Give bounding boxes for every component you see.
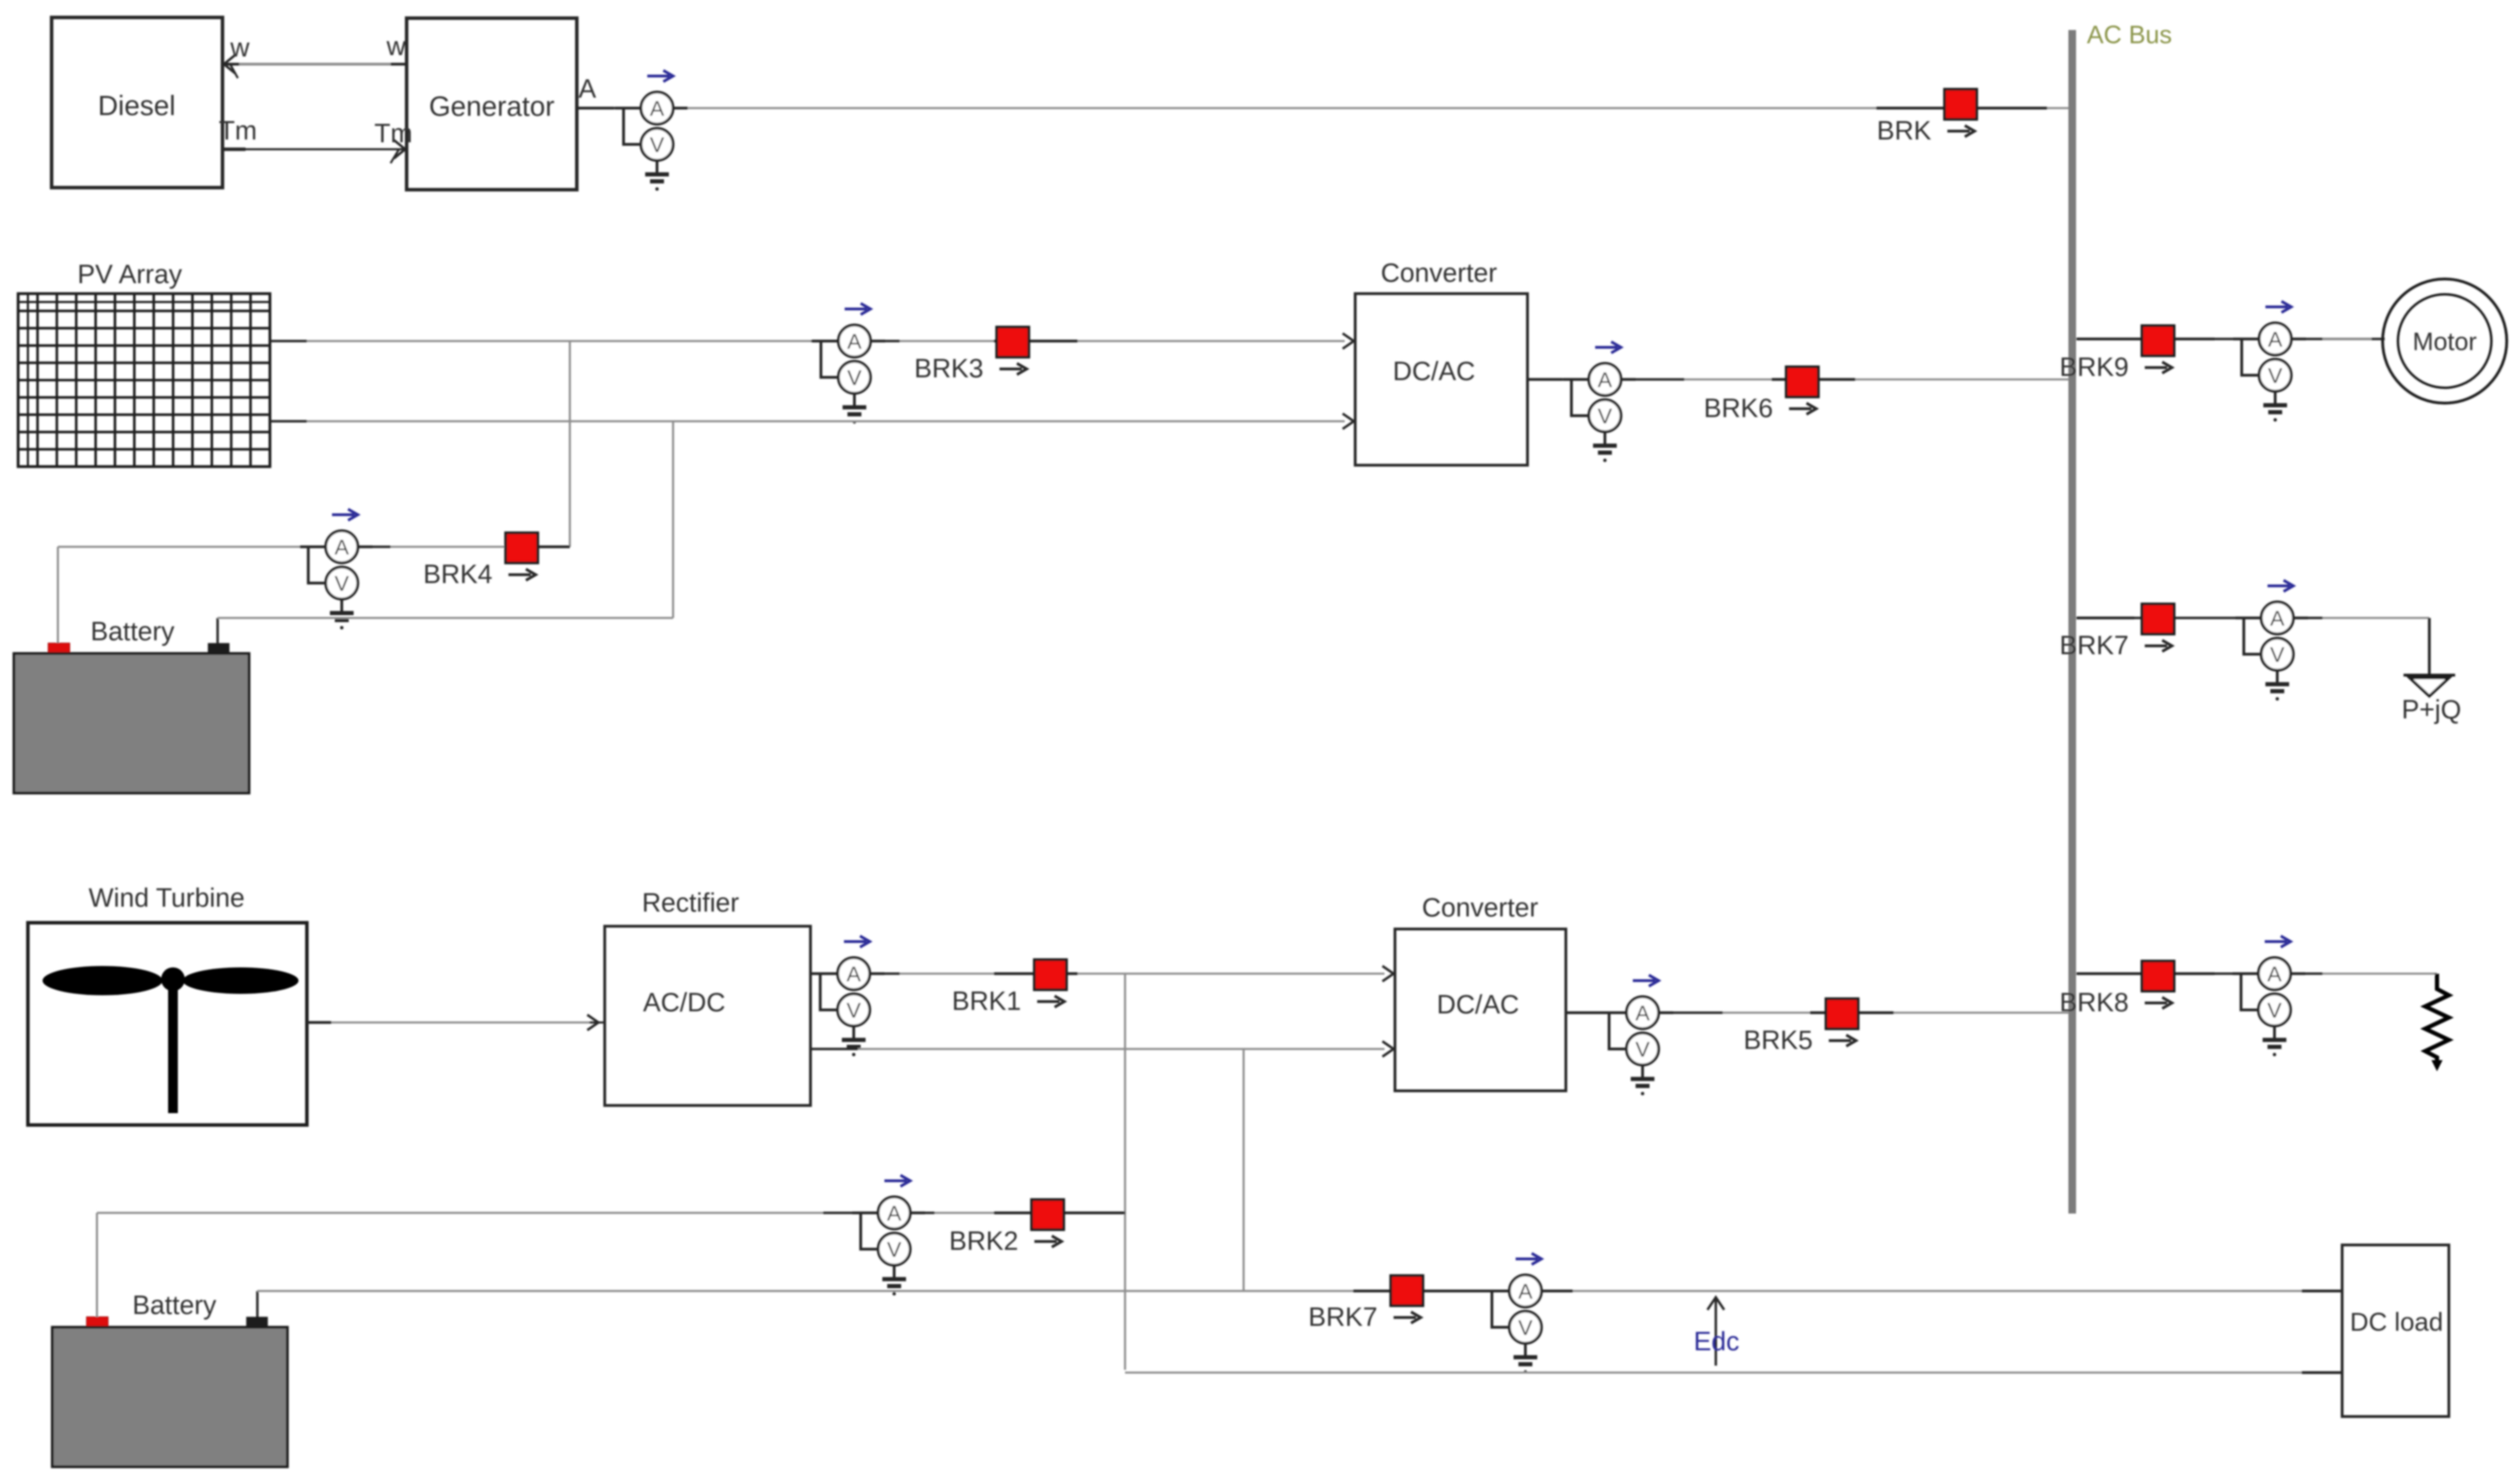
svg-text:Tm: Tm bbox=[219, 116, 257, 146]
svg-text:V: V bbox=[1598, 404, 1613, 428]
svg-text:Rectifier: Rectifier bbox=[642, 889, 739, 918]
svg-text:P+jQ: P+jQ bbox=[2401, 695, 2461, 725]
svg-text:A: A bbox=[887, 1201, 902, 1225]
svg-text:V: V bbox=[847, 998, 861, 1022]
svg-text:V: V bbox=[2268, 998, 2282, 1022]
svg-text:BRK8: BRK8 bbox=[2060, 988, 2129, 1018]
svg-text:Generator: Generator bbox=[429, 91, 554, 122]
svg-text:Diesel: Diesel bbox=[98, 91, 175, 121]
svg-text:A: A bbox=[1598, 368, 1613, 392]
svg-text:BRK7: BRK7 bbox=[2060, 631, 2129, 660]
svg-text:Battery: Battery bbox=[91, 617, 174, 647]
svg-text:DC load: DC load bbox=[2350, 1308, 2443, 1336]
svg-text:PV Array: PV Array bbox=[77, 260, 182, 289]
svg-text:Tm: Tm bbox=[375, 119, 413, 149]
svg-text:Edc: Edc bbox=[1693, 1327, 1739, 1357]
svg-text:BRK5: BRK5 bbox=[1744, 1026, 1813, 1055]
svg-text:V: V bbox=[887, 1237, 902, 1262]
svg-text:Motor: Motor bbox=[2413, 327, 2477, 356]
svg-text:DC/AC: DC/AC bbox=[1437, 990, 1519, 1020]
svg-text:A: A bbox=[847, 329, 862, 354]
svg-text:BRK3: BRK3 bbox=[914, 354, 983, 384]
svg-text:BRK6: BRK6 bbox=[1704, 394, 1773, 423]
svg-text:AC Bus: AC Bus bbox=[2087, 20, 2172, 49]
svg-text:BRK: BRK bbox=[1877, 116, 1931, 146]
svg-text:BRK7: BRK7 bbox=[1308, 1303, 1378, 1332]
svg-text:V: V bbox=[847, 365, 862, 390]
svg-text:V: V bbox=[2268, 363, 2283, 388]
svg-text:Battery: Battery bbox=[133, 1291, 216, 1320]
svg-text:A: A bbox=[1636, 1001, 1650, 1025]
svg-text:A: A bbox=[847, 962, 861, 986]
svg-text:A: A bbox=[1518, 1279, 1533, 1304]
svg-text:AC/DC: AC/DC bbox=[643, 988, 725, 1018]
svg-text:A: A bbox=[2270, 606, 2285, 630]
svg-text:V: V bbox=[650, 133, 665, 157]
svg-text:Converter: Converter bbox=[1422, 893, 1539, 923]
svg-text:w: w bbox=[386, 32, 406, 61]
svg-text:BRK1: BRK1 bbox=[952, 987, 1021, 1016]
svg-text:A: A bbox=[650, 96, 665, 121]
svg-text:Wind Turbine: Wind Turbine bbox=[89, 884, 245, 913]
svg-text:BRK2: BRK2 bbox=[949, 1227, 1018, 1256]
svg-text:w: w bbox=[229, 33, 250, 63]
svg-text:Converter: Converter bbox=[1381, 259, 1497, 288]
svg-text:BRK4: BRK4 bbox=[423, 560, 492, 589]
svg-text:DC/AC: DC/AC bbox=[1393, 357, 1475, 386]
svg-text:BRK9: BRK9 bbox=[2060, 353, 2129, 382]
svg-text:V: V bbox=[1636, 1037, 1650, 1062]
svg-text:A: A bbox=[578, 75, 596, 104]
svg-text:V: V bbox=[1518, 1315, 1533, 1340]
svg-text:V: V bbox=[2270, 642, 2285, 667]
svg-text:A: A bbox=[2268, 327, 2283, 352]
svg-text:V: V bbox=[335, 571, 349, 596]
svg-text:A: A bbox=[335, 535, 349, 559]
svg-text:A: A bbox=[2268, 962, 2282, 986]
